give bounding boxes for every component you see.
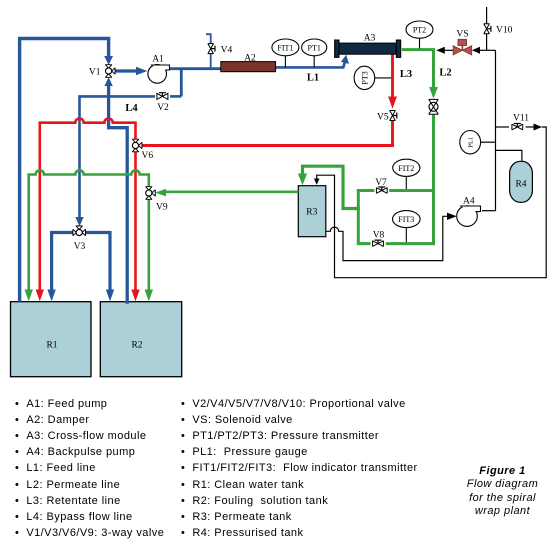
wire: V7 branch xyxy=(358,189,433,192)
instrument FIT3 xyxy=(393,211,421,243)
pump A4 xyxy=(457,197,481,227)
valve V8 xyxy=(373,231,385,247)
3-way valve V1 xyxy=(89,65,115,78)
control valve on L2 xyxy=(429,99,438,114)
wire: red arrow into V5 xyxy=(388,97,397,109)
wire: pump outlet to A2 xyxy=(170,67,221,70)
wire: arrow down into V1 xyxy=(104,56,113,65)
valve V7 xyxy=(375,178,387,193)
wire: green arrow into L2 valve xyxy=(429,87,438,99)
wire: R3 nozzle to A4 suction xyxy=(326,216,447,260)
wire: blue feed loop R1 to V1 xyxy=(20,39,109,302)
wire: R4 branch xyxy=(496,150,522,161)
wire: R3 outlet to V9 arrow xyxy=(166,191,298,194)
wire: green below valve to V7/V8 loop xyxy=(386,115,434,244)
gauge PL1 xyxy=(460,131,481,154)
wire: V8 branch left part xyxy=(358,242,370,245)
instrument PT3 xyxy=(354,66,391,89)
valve V11 xyxy=(512,114,529,130)
valve V5 xyxy=(377,111,397,123)
pump A1 xyxy=(148,55,170,84)
wire: loop left vertical xyxy=(357,189,360,245)
wire: red V6 up branch and top line with hops xyxy=(40,118,136,290)
valve V10 xyxy=(484,24,513,36)
tank R1 xyxy=(11,302,92,377)
instrument PT2 xyxy=(406,21,433,49)
valve V2 xyxy=(157,93,169,113)
wire: black V10 supply line xyxy=(486,7,488,50)
wire: red L3 from A3 down xyxy=(391,55,394,98)
wire: L1 line A2 to A3 with rise xyxy=(276,61,346,67)
wire: V11 return loop to R3 xyxy=(317,127,547,278)
wire: arrow down into V3 xyxy=(75,217,83,226)
wire: V9 down branch to R2 xyxy=(148,199,151,290)
tank R2 xyxy=(100,302,181,377)
wire: L4 bypass line through V2 xyxy=(80,96,182,208)
solenoid valve VS xyxy=(453,30,471,55)
wire: A4 outlet xyxy=(482,210,496,212)
wire: V11 branch xyxy=(496,126,534,128)
instrument PT1 xyxy=(302,39,327,67)
wire: green arrow into R3 xyxy=(298,174,307,186)
wire: red below V5 to corner to V6 xyxy=(141,121,392,146)
wire: red V6 down branch to R2 xyxy=(134,151,137,290)
wire: V9 up branch and long line to R1 with hops xyxy=(29,170,149,290)
damper A2 xyxy=(221,54,276,72)
instrument FIT1 xyxy=(272,39,299,67)
3-way valve V9 xyxy=(146,187,168,213)
instrument FIT2 xyxy=(393,159,420,189)
wire: solenoid line with two left arrows xyxy=(445,49,496,51)
tank R4 xyxy=(510,161,533,202)
wire: black vertical main at right xyxy=(495,50,497,210)
wire: V1 to pump A1 arrow xyxy=(116,69,137,72)
wire: PL1 stem xyxy=(481,141,496,143)
tank R3 xyxy=(298,186,326,237)
wire: V4 vent line xyxy=(206,34,211,68)
wire: V1 bottom vertical with jog to R2 dip tube xyxy=(104,77,112,86)
wire: green L2 from A3 to corner and down xyxy=(402,50,434,88)
wire: tee down to V2 xyxy=(180,69,183,97)
3-way valve V3 xyxy=(73,226,86,252)
valve V4 xyxy=(208,44,233,56)
wire: V3 left branch to R1 xyxy=(52,233,74,291)
wire: V3 right branch to R2 xyxy=(85,233,110,291)
3-way valve V6 xyxy=(132,139,153,161)
cross-flow module A3 xyxy=(335,34,401,58)
wire: feeder to R3 elbow xyxy=(303,166,360,208)
